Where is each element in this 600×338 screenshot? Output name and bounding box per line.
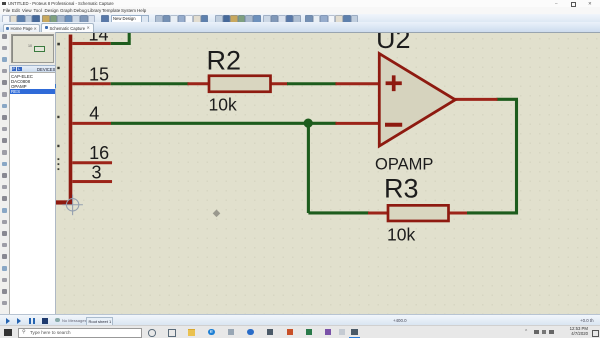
pin 3 stub — [72, 180, 112, 183]
tab strip — [0, 22, 600, 33]
left panel — [9, 32, 56, 315]
wire net pin14 — [111, 32, 130, 43]
schematic canvas — [56, 32, 600, 316]
svg-text:10k: 10k — [209, 94, 237, 114]
IC U1 DAC0808 body right edge — [69, 34, 73, 204]
op-amp U2 body — [379, 53, 455, 146]
sheet origin marker — [62, 194, 83, 215]
svg-text:4: 4 — [89, 103, 99, 123]
op-amp - symbol — [385, 122, 402, 126]
pin 15 stub — [72, 82, 110, 85]
op-amp U2 output pin — [453, 97, 498, 100]
status bar — [0, 314, 600, 326]
P L DEVICES header — [9, 65, 57, 75]
pin 14 stub — [72, 41, 110, 44]
search box — [18, 328, 142, 338]
svg-text:U2: U2 — [376, 33, 411, 54]
combo box — [111, 15, 143, 23]
wire pin15 to R2 — [111, 82, 189, 85]
wire feedback top — [497, 97, 519, 100]
junction node — [304, 118, 313, 127]
op-amp + symbol — [386, 75, 402, 91]
start button — [4, 329, 12, 337]
main toolbar — [0, 14, 600, 23]
wire R3 to feedback — [467, 211, 517, 214]
IC U1 DAC0808 body bottom edge — [56, 200, 72, 204]
taskbar app icons — [148, 329, 156, 337]
wire feedback vertical — [515, 99, 518, 214]
svg-text:16: 16 — [89, 143, 109, 163]
resistor R3 right pin — [447, 211, 468, 214]
resistor R3 body — [388, 205, 449, 221]
menu bar — [0, 7, 600, 14]
preview pane — [11, 34, 54, 63]
left mode toolbar — [0, 32, 10, 315]
svg-text:14: 14 — [88, 33, 108, 44]
op-amp U2 + input pin — [336, 82, 380, 85]
resistor R2 left pin — [188, 82, 210, 85]
wire pin4 to junction and opamp - input — [111, 121, 337, 124]
cursor diamond — [213, 209, 221, 217]
svg-text:15: 15 — [89, 64, 109, 84]
resistor R3 left pin — [368, 211, 389, 214]
windows taskbar — [0, 325, 600, 338]
wire junction down — [307, 123, 310, 213]
tray — [524, 329, 528, 335]
title bar — [0, 0, 600, 8]
resistor R2 body — [209, 75, 271, 91]
pin 4 stub — [72, 121, 111, 124]
wire junction to R3 — [308, 211, 369, 214]
svg-text:3: 3 — [91, 162, 101, 182]
svg-text:R2: R2 — [207, 45, 242, 75]
svg-text:R3: R3 — [384, 173, 419, 203]
IC U1 clipped pin-name fragments at canvas edge — [57, 42, 60, 169]
device list — [9, 72, 57, 316]
pin 16 stub — [72, 161, 112, 164]
divider between panel and canvas — [55, 32, 57, 315]
op-amp U2 - input pin — [336, 121, 380, 124]
svg-text:10k: 10k — [387, 224, 415, 244]
svg-text:OPAMP: OPAMP — [375, 155, 433, 173]
resistor R2 right pin — [270, 82, 288, 85]
wire R2 to opamp + input — [287, 82, 337, 85]
